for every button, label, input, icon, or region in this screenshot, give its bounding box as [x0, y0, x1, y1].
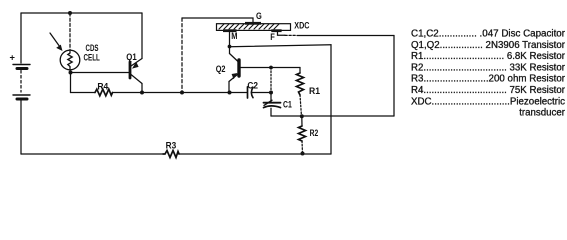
svg-text:G: G [256, 11, 262, 21]
svg-text:C2: C2 [247, 81, 258, 91]
svg-text:C1: C1 [283, 100, 292, 110]
wire CDS top [69, 13, 71, 50]
svg-text:XDC...........................: XDC.............................Piezoele… [411, 96, 565, 107]
node G branch [180, 91, 184, 95]
svg-text:Q2: Q2 [216, 64, 226, 74]
legend [411, 29, 566, 119]
svg-text:transducer: transducer [519, 108, 566, 119]
svg-text:R1: R1 [309, 86, 320, 96]
svg-text:R1............................: R1.............................. 6.8K Re… [411, 51, 566, 62]
wire XDC G feed vertical [181, 18, 183, 93]
svg-text:C1,C2.............. .047 Disc: C1,C2.............. .047 Disc Capacitor [411, 29, 566, 40]
wire CDS bottom [69, 70, 72, 73]
transducer XDC [217, 22, 291, 32]
svg-text:F: F [270, 32, 275, 42]
node R2 bottom [301, 152, 305, 156]
wire right loop vertical [330, 45, 332, 154]
svg-text:R3: R3 [166, 140, 177, 150]
svg-text:R3........................200: R3........................200 ohm Resist… [411, 74, 566, 85]
wire C1 upper lead [270, 68, 272, 93]
svg-text:M: M [231, 31, 237, 41]
node CDS / Q1 base junction [69, 71, 73, 75]
arrow light indicator [50, 33, 63, 51]
wire mid rail left [71, 92, 96, 94]
resistor R3 [163, 151, 179, 158]
svg-text:+: + [10, 53, 16, 63]
node Q1 collector [140, 91, 144, 95]
node on M vertical [228, 45, 232, 49]
wire M node to right loop [230, 45, 332, 47]
capacitor C1 [264, 100, 281, 116]
svg-text:CELL: CELL [84, 52, 101, 62]
svg-text:R4............................: R4............................... 75K Re… [411, 85, 566, 96]
node top rail [68, 11, 72, 15]
node Q2 emitter [228, 91, 232, 95]
node C1 top [269, 66, 273, 70]
node R2 top [300, 114, 304, 118]
resistor R1 [297, 68, 304, 117]
capacitor C2 [248, 87, 272, 98]
wire bottom rail [21, 153, 163, 155]
wire top rail [21, 12, 142, 14]
transistor Q2 [229, 54, 300, 93]
photocell CDS [60, 50, 80, 70]
svg-text:Q1: Q1 [126, 52, 136, 62]
svg-text:R2............................: R2............................... 33K Re… [411, 62, 566, 73]
resistor R2 [299, 116, 306, 153]
svg-text:R2: R2 [310, 128, 319, 138]
resistor R4 [95, 89, 113, 96]
wire left vertical to battery [20, 13, 22, 63]
node C2 right [269, 91, 273, 95]
wire base lead Q1 [71, 72, 129, 74]
battery B1 [13, 65, 30, 155]
wire F bracket [278, 31, 286, 35]
svg-text:R4: R4 [97, 82, 109, 92]
svg-text:XDC: XDC [294, 20, 309, 30]
wire down to R4 rail [70, 73, 72, 93]
wire M vertical [229, 31, 231, 54]
wire lower loop [271, 115, 394, 117]
transistor Q1 [130, 13, 142, 93]
wire mid rail R4 to C2 [113, 92, 247, 94]
wire right vertical F loop [393, 36, 395, 117]
wire G top [182, 18, 253, 24]
svg-text:Q1,Q2................ 2N3906 T: Q1,Q2................ 2N3906 Transistor [411, 40, 566, 51]
